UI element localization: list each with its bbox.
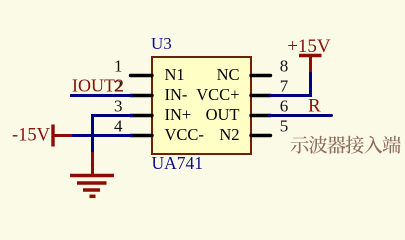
ground bar 4: [90, 195, 96, 199]
ground bar 1: [70, 174, 114, 178]
wire net IOUT2 to pin 2: [70, 94, 133, 97]
pin 3 IN+ (left stub): [131, 114, 153, 117]
char 接: [346, 136, 364, 154]
char 器: [327, 136, 345, 154]
svg-text:-15V: -15V: [12, 126, 51, 146]
svg-text:IOUT2: IOUT2: [72, 75, 124, 95]
pin 8 NC (right stub): [251, 74, 271, 77]
svg-text:7: 7: [280, 77, 289, 96]
ground bar 3: [83, 188, 100, 192]
svg-text:4: 4: [114, 117, 123, 136]
svg-text:IN+: IN+: [165, 105, 192, 124]
op-amp U1 body (UA741): [152, 57, 251, 154]
pin 6 OUT (right stub): [251, 114, 271, 117]
power port +15V bar: [299, 54, 322, 57]
svg-text:OUT: OUT: [206, 105, 240, 124]
svg-text:3: 3: [114, 97, 123, 116]
svg-text:1: 1: [114, 57, 123, 76]
ground bar 2: [77, 181, 107, 185]
wire pin 6 OUT to node R: [269, 114, 332, 117]
svg-text:VCC+: VCC+: [196, 85, 239, 104]
wire pin 3 horizontal: [93, 114, 134, 117]
wire pin 3 vertical down to ground: [91, 114, 94, 154]
char 入: [364, 136, 382, 154]
wire +15V vertical (blue): [309, 72, 312, 94]
pin 2 IN- (left stub): [131, 94, 153, 97]
svg-text:NC: NC: [217, 65, 240, 84]
svg-text:U3: U3: [151, 34, 172, 53]
pin 5 N2 (right stub): [251, 134, 271, 137]
ground stub (red): [91, 152, 94, 175]
pin 7 VCC+ (right stub): [251, 94, 271, 97]
svg-text:VCC-: VCC-: [165, 125, 204, 144]
svg-text:8: 8: [280, 57, 289, 76]
annotation text 示波器接入端 (oscilloscope access terminal): [291, 136, 401, 154]
char 示: [291, 136, 309, 153]
power port +15V stub (red): [309, 56, 312, 73]
svg-text:5: 5: [280, 117, 289, 136]
power port -15V stub: [53, 134, 72, 137]
pin 1 N1 (left stub): [131, 74, 153, 77]
char 端: [383, 136, 401, 154]
power port -15V bar: [51, 125, 54, 147]
wire pin 4 horizontal (blue part): [71, 134, 133, 137]
svg-text:N2: N2: [219, 125, 239, 144]
wire pin 7 horizontal: [269, 94, 312, 97]
svg-text:R: R: [308, 96, 321, 117]
svg-text:UA741: UA741: [152, 153, 204, 173]
char 波: [309, 136, 327, 154]
pin 4 VCC- (left stub): [131, 134, 153, 137]
svg-text:IN-: IN-: [165, 85, 188, 104]
svg-text:N1: N1: [165, 65, 185, 84]
svg-text:6: 6: [280, 97, 289, 116]
